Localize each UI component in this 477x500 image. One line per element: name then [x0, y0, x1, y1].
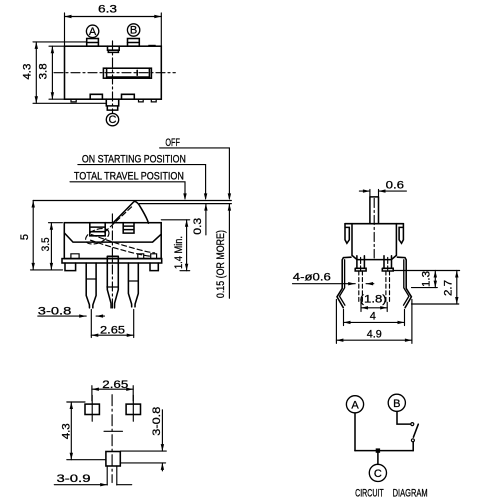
dim 6.3 — [64, 13, 66, 46]
svg-text:0.3: 0.3 — [192, 218, 204, 235]
dim 4.3 (pcb) — [67, 401, 85, 403]
left mounting foot — [65, 263, 76, 271]
left slot — [90, 223, 105, 236]
dim 2.65 (front) — [90, 310, 92, 338]
top center tab — [108, 46, 120, 52]
dim 3-0.8 — [38, 315, 86, 317]
dim 3-0.9 — [54, 484, 107, 486]
terminal A — [346, 396, 363, 413]
dim 3-0.8 (pcb) — [121, 450, 167, 452]
terminal B tab — [128, 39, 140, 47]
svg-text:3-0.8: 3-0.8 — [38, 305, 72, 317]
svg-text:B: B — [393, 398, 400, 410]
wire bottom horizontal — [355, 450, 413, 452]
bottom edge bumps — [71, 254, 79, 259]
svg-text:3.5: 3.5 — [40, 237, 52, 251]
terminal C — [369, 464, 386, 481]
balloon C — [106, 113, 118, 125]
svg-text:(1.8): (1.8) — [360, 293, 387, 305]
lever travel line A — [33, 200, 231, 202]
wire to C — [377, 451, 379, 465]
dim 4.9 — [335, 300, 337, 344]
svg-text:A: A — [351, 399, 359, 411]
dim 3.8 — [49, 45, 65, 47]
dim 2.7 — [412, 303, 459, 305]
dim 4.3 left — [33, 41, 86, 43]
dim 1.3 — [394, 270, 460, 272]
svg-text:5: 5 — [19, 234, 31, 240]
balloon A — [86, 25, 98, 37]
clip left wing — [337, 257, 351, 308]
dim 2.65 (pcb) — [91, 386, 93, 401]
wire B down — [397, 411, 410, 424]
clip right wing — [397, 257, 411, 308]
pad C — [106, 452, 120, 467]
svg-text:3.8: 3.8 — [37, 63, 49, 79]
dim 0.6 — [369, 190, 371, 197]
center cross — [104, 430, 123, 432]
svg-text:2.65: 2.65 — [102, 379, 128, 391]
dim 3.5 — [49, 222, 63, 224]
pad C hole lines — [106, 466, 108, 485]
leader OFF — [160, 148, 230, 199]
switch contact top — [411, 423, 414, 426]
svg-text:DIAGRAM: DIAGRAM — [393, 487, 428, 499]
svg-text:2.65: 2.65 — [100, 324, 125, 336]
dim 5 — [31, 269, 63, 271]
cap left hook — [345, 224, 349, 244]
balloon B — [127, 24, 139, 36]
svg-text:B: B — [130, 25, 137, 37]
dim 4 — [343, 310, 345, 326]
svg-text:4-ø0.6: 4-ø0.6 — [293, 272, 331, 284]
bottom inside tab left — [90, 94, 102, 99]
svg-text:C: C — [109, 114, 117, 126]
dim 4-o0.6 — [293, 283, 356, 285]
pivot dashed ellipse — [83, 225, 111, 247]
svg-text:4: 4 — [370, 311, 376, 323]
pin right — [128, 263, 138, 307]
switch blade — [413, 424, 418, 437]
svg-text:2.7: 2.7 — [442, 280, 454, 296]
right slot — [123, 223, 134, 233]
base plate — [62, 259, 162, 263]
hole hidden lines left — [359, 271, 363, 302]
inner trapezoid — [64, 233, 161, 242]
leader ON STARTING — [78, 165, 206, 199]
vertical centerline — [111, 214, 113, 311]
lever travel line B — [139, 203, 231, 205]
svg-text:4.3: 4.3 — [21, 64, 33, 80]
body outline — [65, 46, 162, 99]
svg-text:0.6: 0.6 — [386, 180, 405, 192]
right mounting foot — [150, 263, 158, 271]
vertical centerline — [112, 41, 114, 113]
pad B — [126, 404, 140, 414]
top cap — [345, 223, 403, 225]
svg-text:1.3: 1.3 — [421, 271, 433, 287]
svg-text:4.9: 4.9 — [367, 329, 382, 341]
switch contact bottom — [411, 439, 414, 442]
body outline — [64, 223, 161, 259]
svg-text:4.3: 4.3 — [60, 423, 72, 439]
push rod — [370, 197, 379, 224]
svg-text:CIRCUIT: CIRCUIT — [355, 487, 384, 499]
rod centerline — [373, 199, 375, 259]
svg-text:C: C — [374, 468, 382, 480]
svg-text:1.4 Min.: 1.4 Min. — [173, 236, 185, 269]
hole hidden lines right — [386, 271, 390, 302]
leader TOTAL TRAVEL — [70, 182, 185, 199]
svg-text:A: A — [89, 26, 97, 38]
terminal C tab — [106, 99, 118, 110]
lever down position dashed — [92, 235, 155, 253]
vertical centerline — [111, 395, 113, 483]
pin center — [107, 256, 118, 308]
lever fin left edge — [113, 201, 135, 223]
terminal B — [388, 394, 405, 411]
svg-text:ON STARTING POSITION: ON STARTING POSITION — [82, 153, 186, 165]
bottom feet — [71, 99, 76, 102]
top edge notch — [148, 45, 155, 47]
horizontal centerline — [54, 72, 175, 74]
svg-text:6.3: 6.3 — [98, 3, 117, 15]
wire A down — [354, 413, 356, 451]
lever fin inner dashed — [105, 206, 134, 233]
leg left inside — [355, 256, 366, 271]
dim (1.8) — [360, 302, 362, 311]
lever fin right edge — [135, 201, 149, 223]
cap right hook — [399, 224, 403, 244]
wire switch down — [412, 442, 414, 451]
leg right inside — [382, 256, 393, 271]
svg-text:0.15 (OR MORE): 0.15 (OR MORE) — [215, 230, 227, 298]
leg centerlines — [360, 258, 362, 272]
svg-text:3-0.9: 3-0.9 — [57, 473, 91, 485]
svg-text:TOTAL TRAVEL POSITION: TOTAL TRAVEL POSITION — [74, 171, 184, 183]
svg-text:3-0.8: 3-0.8 — [151, 407, 163, 436]
dim 1.4 Min. — [161, 219, 189, 221]
terminal A tab — [87, 39, 99, 47]
dim 0.3 — [205, 204, 207, 235]
dim 0.15 (OR MORE) — [228, 204, 230, 299]
pin left — [86, 263, 96, 308]
junction node — [376, 448, 380, 452]
body sides — [352, 224, 396, 260]
slider knob — [103, 68, 151, 78]
bottom inside tab right — [122, 94, 135, 99]
pad A — [85, 404, 99, 414]
